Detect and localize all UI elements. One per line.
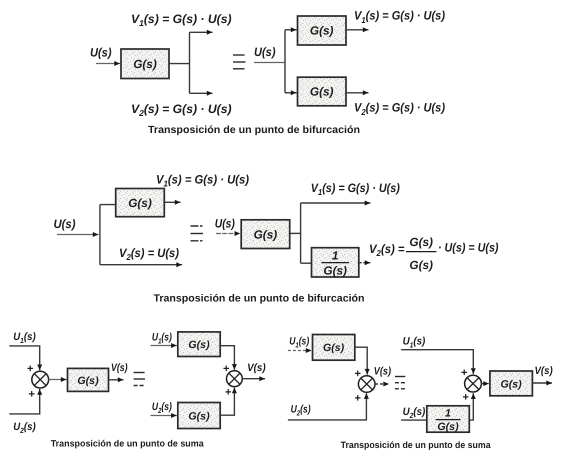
svg-text:V2(s) = G(s) · U(s): V2(s) = G(s) · U(s) (131, 102, 232, 118)
svg-text:G(s): G(s) (437, 421, 459, 433)
label V2(s) equation with fraction (diagram 4) (369, 235, 499, 272)
svg-text:+: + (463, 391, 469, 403)
block lower G(s) (diagram 6) (178, 403, 220, 429)
wire bottom branch output arrow (diagram 1) (190, 92, 213, 94)
svg-text:G(s): G(s) (323, 342, 345, 354)
wire bottom branch into lower G(s) (diagram 2) (285, 92, 297, 94)
wire bottom branch into 1/G(s) (diagram 4) (301, 262, 312, 264)
summing junction (diagram 6) (227, 371, 243, 387)
wire top branch output arrow (diagram 4) (301, 202, 371, 204)
wire junction to G(s) (diagram 5) (49, 379, 67, 381)
svg-text:U1(s): U1(s) (403, 336, 426, 350)
svg-text:U(s): U(s) (90, 46, 112, 60)
svg-text:V(s): V(s) (111, 362, 128, 374)
block G(s) (diagram 3) (116, 189, 165, 217)
wire junction output arrow dashed (diagram 7) (375, 383, 389, 385)
svg-text:V(s): V(s) (374, 366, 392, 378)
wire top branch output arrow (diagram 1) (190, 31, 213, 33)
svg-text:G(s): G(s) (310, 85, 334, 99)
block lower G(s) (diagram 2) (298, 77, 347, 106)
wire junction to G(s) dashed (diagram 8) (481, 383, 489, 385)
wire input to branch point (diagram 2) (254, 62, 285, 64)
svg-text:V1(s) = G(s) · U(s): V1(s) = G(s) · U(s) (131, 12, 232, 28)
wire input arrow into G(s) (diagram 4) (216, 233, 240, 235)
svg-text:U1(s): U1(s) (13, 331, 36, 345)
svg-text:+: + (355, 393, 361, 405)
block G(s) (diagram 4) (241, 220, 290, 249)
svg-text:U2(s): U2(s) (13, 421, 36, 435)
svg-text:G(s): G(s) (188, 410, 210, 422)
node branch point vertical (diagram 2) (284, 30, 286, 93)
node branch point vertical (diagram 4) (300, 203, 302, 263)
svg-text:Transposición de un punto de b: Transposición de un punto de bifurcación (148, 125, 360, 136)
block upper G(s) (diagram 2) (298, 16, 347, 45)
wire block output to branch point (diagram 1) (169, 63, 190, 65)
wire output arrow V(s) (diagram 6) (242, 378, 265, 380)
equivalence sign top row (233, 55, 246, 69)
svg-text:G(s): G(s) (323, 263, 347, 277)
equivalence sign bottom left (134, 373, 145, 386)
wire U2 into 1/G(s) (diagram 8) (401, 419, 427, 421)
svg-text:V2(s) = G(s) · U(s): V2(s) = G(s) · U(s) (354, 101, 445, 117)
block G(s) (diagram 8) (490, 371, 533, 396)
svg-text:U2(s): U2(s) (152, 401, 172, 415)
summing junction (diagram 5) (32, 371, 49, 388)
summing junction (diagram 8) (465, 375, 482, 392)
wire 1/G(s) to summing junction (diagram 8) (469, 393, 473, 420)
node branch point vertical (diagram 1) (189, 32, 191, 93)
wire input arrow to branch point (diagram 3) (57, 234, 99, 236)
svg-text:+: + (225, 386, 231, 398)
svg-text:V1(s) = G(s) · U(s): V1(s) = G(s) · U(s) (354, 9, 445, 25)
block G(s) (diagram 5) (68, 368, 109, 391)
wire top output arrow (diagram 3) (164, 201, 180, 203)
svg-text:U(s): U(s) (215, 216, 235, 230)
svg-text:V1(s) = G(s) · U(s): V1(s) = G(s) · U(s) (311, 181, 400, 197)
block 1/G(s) (diagram 4) (312, 248, 359, 278)
wire U1 input into summing junction (diagram 8) (401, 350, 473, 374)
svg-text:U(s): U(s) (254, 45, 276, 59)
wire U2 input into summing junction (diagram 5) (9, 389, 39, 414)
block 1/G(s) (diagram 8) (427, 406, 470, 433)
block upper G(s) (diagram 6) (178, 332, 220, 357)
svg-text:1: 1 (332, 248, 339, 262)
svg-text:· U(s) = U(s): · U(s) = U(s) (438, 241, 499, 255)
wire upper output arrow (diagram 2) (346, 29, 369, 31)
node branch point vertical (diagram 3) (99, 205, 101, 265)
svg-text:G(s): G(s) (128, 196, 152, 210)
wire bottom branch output arrow (diagram 3) (100, 264, 182, 266)
svg-text:1: 1 (445, 407, 451, 419)
wire U1 input into G(s) dashed (diagram 7) (288, 350, 312, 352)
svg-text:G(s): G(s) (133, 57, 157, 71)
wire lower G(s) to summing junction (diagram 6) (220, 388, 234, 416)
wire 1/G(s) output arrow (diagram 4) (359, 262, 371, 264)
block G(s) (diagram 7) (313, 335, 355, 361)
equivalence sign middle row (191, 226, 204, 241)
svg-text:U1(s): U1(s) (289, 335, 309, 349)
wire U1 input into upper G(s) (diagram 6) (151, 345, 177, 347)
summing junction (diagram 7) (358, 376, 375, 393)
wire U1 input into summing junction (diagram 5) (9, 346, 39, 370)
svg-text:U2(s): U2(s) (291, 403, 311, 417)
wire G(s) to summing junction (diagram 7) (355, 347, 367, 374)
svg-text:G(s): G(s) (501, 378, 523, 390)
svg-text:Transposición de un punto de s: Transposición de un punto de suma (341, 440, 492, 450)
block G(s) (diagram 1) (121, 49, 169, 79)
wire U2 input into summing junction (diagram 7) (288, 393, 367, 420)
wire lower output arrow (diagram 2) (346, 92, 369, 94)
wire U2 input into lower G(s) (diagram 6) (151, 415, 177, 417)
svg-text:V2(s) =: V2(s) = (369, 242, 405, 258)
svg-text:Transposición de un punto de s: Transposición de un punto de suma (51, 438, 205, 448)
equivalence sign bottom right (395, 377, 406, 389)
svg-text:G(s): G(s) (188, 339, 210, 351)
svg-text:G(s): G(s) (254, 227, 278, 241)
svg-text:+: + (29, 389, 35, 401)
svg-text:G(s): G(s) (77, 375, 99, 387)
svg-text:U1(s): U1(s) (152, 332, 172, 346)
wire upper G(s) to summing junction (diagram 6) (220, 346, 234, 370)
svg-text:G(s): G(s) (310, 24, 334, 38)
svg-text:U(s): U(s) (54, 217, 76, 231)
svg-text:V(s): V(s) (247, 362, 266, 374)
wire block output to branch point (diagram 4) (290, 232, 301, 234)
wire output arrow V(s) (diagram 5) (109, 379, 124, 381)
wire top branch into G(s) (diagram 3) (100, 204, 116, 206)
svg-text:U2(s): U2(s) (403, 406, 426, 420)
svg-text:G(s): G(s) (409, 258, 433, 272)
wire input into G(s) (diagram 1) (96, 63, 120, 65)
wire output arrow V(s) (diagram 8) (532, 382, 552, 384)
svg-text:Transposición de un punto de b: Transposición de un punto de bifurcación (154, 293, 365, 304)
svg-text:G(s): G(s) (409, 235, 433, 249)
svg-text:+: + (27, 363, 33, 375)
wire top branch into upper G(s) (diagram 2) (285, 29, 297, 31)
svg-text:V(s): V(s) (535, 365, 554, 377)
svg-text:V1(s) = G(s) · U(s): V1(s) = G(s) · U(s) (156, 172, 249, 188)
